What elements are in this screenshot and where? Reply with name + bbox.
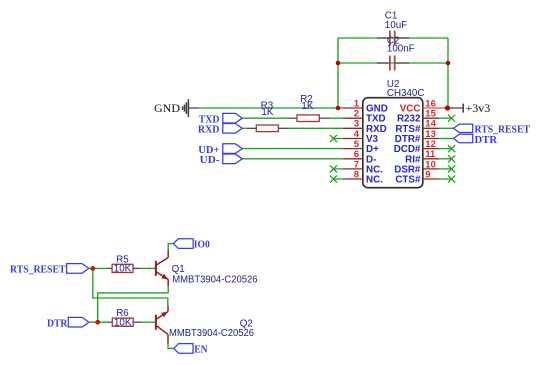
- transistor Q2: [156, 306, 255, 344]
- svg-text:EN: EN: [194, 344, 208, 355]
- svg-text:UD-: UD-: [200, 155, 220, 166]
- pin 6 D-: [343, 149, 377, 165]
- junction node DTR: [95, 320, 100, 325]
- svg-text:10K: 10K: [114, 264, 132, 275]
- port IO0: [173, 239, 209, 251]
- svg-text:+3v3: +3v3: [466, 101, 491, 115]
- svg-text:RTS_RESET: RTS_RESET: [10, 264, 66, 275]
- pin 11 RI#: [405, 149, 439, 165]
- wire TXD to R2: [242, 117, 287, 119]
- junction node VCC: [445, 105, 450, 110]
- no-connect X pin 4: [330, 135, 343, 142]
- wire R6 to Q2 base: [142, 321, 156, 323]
- svg-text:10uF: 10uF: [385, 20, 407, 31]
- wire DTR cross line: [98, 286, 169, 322]
- no-connect X pin 12: [439, 145, 455, 152]
- svg-text:DTR: DTR: [475, 135, 498, 146]
- svg-text:NC.: NC.: [366, 175, 383, 186]
- svg-text:10K: 10K: [114, 317, 132, 328]
- no-connect X pin 9: [439, 175, 455, 182]
- port UD-: [200, 154, 243, 166]
- IC U2 CH340C: [363, 79, 425, 188]
- svg-text:8: 8: [354, 169, 359, 180]
- resistor R3: [248, 101, 290, 132]
- wire VCC pin16 to +3v3: [443, 107, 448, 109]
- junction node RTS: [90, 266, 95, 271]
- wire RXD to R3: [242, 127, 247, 129]
- wire GND net horizontal: [199, 107, 343, 109]
- port TXD: [199, 113, 243, 125]
- svg-text:1K: 1K: [301, 101, 313, 112]
- junction node C2 left: [336, 61, 341, 66]
- pin 8 NC: [343, 169, 383, 185]
- pin 5 D+: [343, 139, 379, 155]
- svg-text:DTR: DTR: [47, 318, 68, 329]
- pin 16 VCC: [400, 98, 443, 114]
- svg-text:RXD: RXD: [198, 125, 220, 136]
- wire UD- to pin6: [242, 158, 342, 160]
- svg-text:MMBT3904-C20526: MMBT3904-C20526: [172, 275, 258, 286]
- wire RTS vertical down: [93, 268, 168, 305]
- resistor R5: [107, 254, 140, 274]
- wire Q2 collector to EN: [168, 344, 174, 349]
- svg-text:IO0: IO0: [194, 240, 210, 251]
- capacitor C2: [377, 36, 415, 71]
- port EN: [174, 344, 208, 356]
- wire DTR to R6: [89, 321, 108, 323]
- wire capacitor top branch: [338, 37, 448, 39]
- pin 7 NC: [343, 159, 383, 175]
- svg-text:MMBT3904-C20526: MMBT3904-C20526: [169, 328, 255, 339]
- wire R5 to Q1 base: [141, 267, 156, 269]
- wire pin14 to RTS_RESET port: [439, 127, 453, 129]
- pin 2 TXD: [343, 109, 386, 125]
- port DTR right: [453, 134, 497, 146]
- no-connect X pin 11: [439, 155, 455, 162]
- junction node C2 right: [446, 61, 451, 66]
- wire UD+ to pin5: [242, 148, 342, 150]
- svg-text:1K: 1K: [261, 107, 273, 118]
- junction node at pin1/GND: [336, 106, 341, 111]
- resistor R6: [107, 308, 142, 328]
- svg-text:100nF: 100nF: [387, 44, 415, 55]
- wire right vertical to VCC: [447, 38, 449, 108]
- transistor Q1: [156, 250, 258, 286]
- port UD+: [198, 144, 242, 156]
- wire left vertical to capacitors: [337, 38, 339, 108]
- svg-text:CTS#: CTS#: [395, 175, 421, 186]
- pin 10 DSR#: [394, 159, 439, 175]
- port RXD: [198, 124, 242, 136]
- capacitor C1: [377, 11, 409, 46]
- no-connect X pin 10: [439, 165, 455, 172]
- power +3v3: [448, 101, 491, 115]
- wire capacitor C2 branch: [338, 62, 448, 64]
- svg-text:GND: GND: [154, 101, 180, 115]
- wire R3 to pin3: [289, 127, 343, 129]
- pin 3 RXD: [343, 119, 387, 135]
- resistor R2: [287, 94, 330, 122]
- no-connect X pin 7: [330, 165, 343, 172]
- port DTR bottom: [47, 317, 89, 329]
- no-connect X pin 8: [330, 175, 343, 182]
- pin 1 GND: [343, 98, 388, 114]
- svg-text:9: 9: [425, 169, 430, 180]
- wire RTS_RESET to R5: [89, 267, 108, 269]
- ground: [154, 99, 199, 117]
- wire pin13 to DTR port: [439, 138, 453, 140]
- pin 14 RTS#: [395, 119, 439, 135]
- pin 9 CTS#: [395, 169, 439, 185]
- no-connect X pin 15: [439, 115, 455, 122]
- port RTS_RESET bottom: [10, 264, 89, 276]
- pin 4 V3: [343, 129, 379, 145]
- wire Q1 collector to IO0: [168, 244, 173, 250]
- pin 15 R232: [397, 109, 439, 125]
- wire Q1 emitter down to DTR line: [167, 280, 169, 287]
- pin 13 DTR#: [395, 129, 439, 145]
- pin 12 DCD#: [394, 139, 439, 155]
- wire R2 to pin2: [330, 117, 343, 119]
- port RTS_RESET right: [453, 124, 530, 136]
